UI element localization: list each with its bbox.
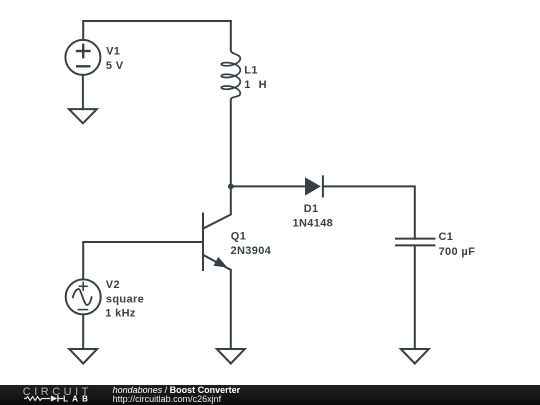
svg-text:1 kHz: 1 kHz: [105, 308, 136, 320]
label L1: [244, 65, 267, 91]
svg-text:1H: 1H: [244, 79, 267, 91]
svg-text:1N4148: 1N4148: [293, 218, 334, 230]
label V2: [105, 279, 144, 320]
footer bar: [0, 385, 540, 405]
CircuitLab logo: [0, 385, 100, 405]
wire emitter to ground: [230, 270, 232, 349]
svg-text:D1: D1: [304, 203, 319, 215]
svg-text:LAB: LAB: [63, 395, 92, 404]
label C1: [439, 231, 476, 258]
wire L1 bottom to collector node: [230, 100, 232, 187]
svg-text:5 V: 5 V: [106, 60, 124, 72]
wire V2 to ground: [82, 314, 84, 349]
label Q1: [231, 231, 272, 257]
svg-text:L1: L1: [244, 65, 258, 77]
ground V2: [69, 349, 97, 364]
ground Q1: [217, 349, 245, 364]
wire D1 cathode to corner to C1: [323, 186, 415, 238]
svg-text:Q1: Q1: [231, 231, 246, 243]
wire base: V2 to Q1 base: [83, 242, 203, 279]
wire C1 to ground: [414, 245, 416, 349]
wire V1 top to L1 top: [83, 21, 231, 40]
transistor Q1: [203, 186, 231, 270]
svg-text:700 µF: 700 µF: [439, 246, 476, 258]
voltage source V2: [66, 279, 101, 314]
capacitor C1: [396, 239, 434, 246]
svg-text:V1: V1: [106, 46, 120, 58]
label V1: [106, 46, 124, 72]
diode D1: [305, 176, 323, 196]
voltage source V1: [65, 40, 100, 75]
wire L1 top lead: [230, 21, 232, 50]
svg-text:C1: C1: [439, 231, 454, 243]
svg-text:2N3904: 2N3904: [231, 245, 272, 257]
inductor L1: [221, 50, 240, 99]
label D1: [293, 203, 334, 229]
footer text: [113, 385, 241, 395]
svg-text:square: square: [106, 293, 144, 305]
ground V1: [69, 109, 97, 123]
svg-text:V2: V2: [106, 279, 120, 291]
node A junction dot: [228, 184, 234, 190]
wire node A to D1 anode: [231, 185, 305, 187]
ground C1: [401, 349, 429, 364]
wire V1 to ground: [82, 75, 84, 109]
